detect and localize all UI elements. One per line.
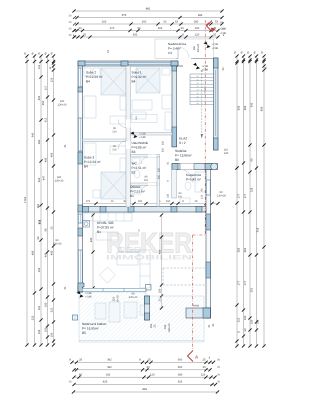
svg-text:P=90: P=90 [177, 65, 184, 68]
svg-text:33: 33 [180, 27, 184, 30]
svg-text:466: 466 [32, 250, 35, 255]
svg-text:220+20: 220+20 [55, 180, 64, 183]
svg-text:+2,88: +2,88 [85, 296, 92, 299]
svg-text:Nadstrešnica: Nadstrešnica [168, 42, 186, 46]
svg-text:Ulaz/hodnik: Ulaz/hodnik [132, 141, 149, 145]
svg-text:Z2: Z2 [222, 67, 225, 71]
svg-text:260: 260 [38, 139, 41, 144]
svg-text:53: 53 [215, 21, 219, 24]
svg-text:130: 130 [224, 152, 229, 155]
svg-text:83: 83 [79, 373, 83, 376]
svg-text:P= 16,95m²: P= 16,95m² [82, 327, 99, 331]
svg-text:B3: B3 [132, 150, 136, 154]
svg-text:123: 123 [150, 373, 155, 376]
svg-text:16: 16 [197, 95, 199, 98]
svg-text:220: 220 [195, 27, 200, 30]
svg-text:210: 210 [112, 130, 117, 133]
svg-text:25: 25 [213, 34, 217, 37]
svg-text:25: 25 [79, 358, 83, 361]
svg-text:696: 696 [261, 106, 264, 111]
svg-text:53: 53 [175, 21, 179, 24]
svg-text:228: 228 [251, 187, 254, 192]
svg-text:543: 543 [251, 102, 254, 107]
svg-text:B2: B2 [132, 170, 136, 174]
svg-text:33: 33 [202, 366, 206, 369]
svg-text:P=2,51 m²: P=2,51 m² [132, 166, 147, 170]
svg-text:277: 277 [238, 193, 241, 198]
svg-text:C3: C3 [168, 51, 172, 55]
svg-text:190: 190 [244, 315, 247, 320]
svg-text:P=9,85 m²: P=9,85 m² [132, 145, 147, 149]
svg-text:575: 575 [122, 14, 127, 17]
svg-text:25: 25 [202, 358, 206, 361]
svg-text:333: 333 [32, 315, 35, 320]
svg-text:11: 11 [197, 78, 199, 81]
svg-text:400: 400 [51, 152, 54, 157]
svg-text:277: 277 [238, 280, 241, 285]
svg-text:12: 12 [197, 82, 199, 85]
svg-text:Ostava: Ostava [130, 185, 140, 189]
svg-text:Natkriveni balkon: Natkriveni balkon [82, 322, 107, 326]
svg-text:Soba 2: Soba 2 [86, 71, 96, 75]
svg-text:P=5,42 m²: P=5,42 m² [186, 177, 201, 181]
svg-text:15: 15 [197, 92, 199, 95]
svg-text:KH=BL+DB: KH=BL+DB [97, 221, 113, 225]
svg-text:141: 141 [38, 64, 41, 69]
svg-text:583: 583 [238, 247, 241, 252]
svg-text:918: 918 [257, 227, 260, 232]
svg-text:Z1: Z1 [64, 144, 67, 148]
svg-text:455: 455 [42, 100, 45, 105]
svg-text:522: 522 [51, 307, 54, 312]
svg-text:B5: B5 [82, 331, 86, 335]
svg-text:150: 150 [38, 329, 41, 334]
svg-text:400: 400 [45, 252, 48, 257]
svg-text:+2,98: +2,98 [220, 28, 227, 31]
svg-text:160: 160 [142, 21, 147, 24]
svg-text:+2,88: +2,88 [139, 136, 146, 139]
svg-text:881: 881 [146, 8, 151, 11]
svg-text:Z1: Z1 [208, 324, 211, 328]
svg-text:101: 101 [38, 305, 41, 310]
svg-text:600: 600 [244, 105, 247, 110]
svg-text:WC: WC [132, 162, 138, 166]
svg-text:P=9,32 m²: P=9,32 m² [132, 75, 147, 79]
svg-text:10: 10 [197, 75, 199, 78]
svg-text:342: 342 [106, 373, 111, 376]
svg-text:Z1: Z1 [64, 286, 67, 290]
svg-text:210: 210 [144, 179, 149, 182]
svg-text:150: 150 [45, 327, 48, 332]
svg-text:150: 150 [257, 319, 260, 324]
svg-text:+2,88: +2,88 [220, 32, 227, 35]
svg-text:683: 683 [244, 247, 247, 252]
svg-text:277: 277 [244, 193, 247, 198]
svg-text:150: 150 [51, 332, 54, 337]
svg-text:323: 323 [102, 21, 107, 24]
svg-text:150: 150 [138, 200, 143, 203]
svg-text:522: 522 [238, 317, 241, 322]
svg-text:Soba 1: Soba 1 [132, 71, 142, 75]
svg-text:382: 382 [37, 203, 40, 208]
svg-text:180: 180 [178, 373, 183, 376]
svg-text:220+20: 220+20 [197, 43, 200, 52]
svg-text:542: 542 [133, 34, 138, 37]
svg-text:33: 33 [78, 27, 82, 30]
svg-text:25: 25 [83, 34, 87, 37]
svg-text:160: 160 [193, 45, 196, 50]
svg-text:Kupaonica: Kupaonica [186, 173, 201, 177]
svg-text:Z1: Z1 [212, 323, 215, 327]
svg-text:220+20: 220+20 [58, 104, 67, 107]
svg-text:351: 351 [251, 287, 254, 292]
svg-text:190: 190 [166, 200, 171, 203]
svg-text:392: 392 [107, 358, 112, 361]
svg-text:B4: B4 [132, 79, 136, 83]
svg-text:426: 426 [178, 381, 183, 384]
svg-text:277: 277 [244, 280, 247, 285]
svg-text:130+20: 130+20 [217, 195, 226, 198]
svg-text:B4: B4 [86, 79, 90, 83]
svg-text:P=37,85 m²: P=37,85 m² [97, 225, 114, 229]
svg-text:210: 210 [112, 148, 117, 151]
svg-text:25: 25 [148, 358, 152, 361]
svg-text:102: 102 [167, 193, 170, 198]
svg-text:33: 33 [146, 366, 150, 369]
svg-text:1794: 1794 [24, 197, 27, 203]
svg-text:425: 425 [103, 381, 108, 384]
svg-text:447: 447 [43, 175, 46, 180]
svg-text:210: 210 [201, 194, 204, 199]
svg-text:210: 210 [162, 147, 165, 152]
svg-text:270: 270 [86, 200, 91, 203]
svg-text:400: 400 [45, 157, 48, 162]
svg-text:50: 50 [137, 27, 141, 30]
svg-text:225: 225 [51, 77, 54, 82]
svg-text:253: 253 [38, 267, 41, 272]
svg-text:Z1: Z1 [107, 49, 110, 53]
svg-text:P= 13,86m²: P= 13,86m² [175, 153, 192, 157]
svg-text:150: 150 [251, 319, 254, 324]
svg-text:+2,98: +2,98 [212, 43, 219, 46]
svg-text:14: 14 [197, 89, 199, 92]
svg-text:+2,88: +2,88 [212, 47, 219, 50]
svg-text:B1: B1 [130, 194, 134, 198]
svg-text:ULAZ: ULAZ [179, 137, 187, 141]
svg-text:881: 881 [143, 388, 148, 391]
svg-text:630: 630 [238, 105, 241, 110]
svg-text:912: 912 [45, 117, 48, 122]
svg-text:B1: B1 [97, 230, 101, 234]
svg-text:IMMOBILIEN: IMMOBILIEN [106, 255, 193, 262]
svg-text:262: 262 [158, 27, 163, 30]
svg-text:17: 17 [197, 99, 199, 102]
svg-text:P=12,29 m²: P=12,29 m² [86, 75, 103, 79]
svg-text:18: 18 [197, 102, 199, 105]
svg-text:110: 110 [162, 140, 165, 145]
svg-text:400: 400 [159, 249, 162, 254]
svg-text:220: 220 [195, 34, 200, 37]
svg-text:286: 286 [198, 14, 203, 17]
svg-text:210: 210 [158, 174, 161, 179]
svg-text:B4: B4 [84, 164, 88, 168]
svg-text:123: 123 [201, 373, 206, 376]
svg-text:400: 400 [51, 250, 54, 255]
svg-text:P=2,51 m²: P=2,51 m² [130, 189, 145, 193]
svg-text:360: 360 [178, 358, 183, 361]
svg-text:S / 2: S / 2 [179, 141, 186, 145]
svg-text:13: 13 [197, 85, 199, 88]
svg-text:92: 92 [163, 21, 167, 24]
svg-text:150: 150 [45, 302, 48, 307]
svg-text:455: 455 [38, 95, 41, 100]
svg-text:270: 270 [110, 27, 115, 30]
svg-text:360: 360 [178, 366, 183, 369]
svg-text:Soba 3: Soba 3 [84, 156, 94, 160]
svg-text:945: 945 [32, 132, 35, 137]
svg-text:B0: B0 [175, 158, 179, 162]
svg-text:400: 400 [90, 237, 93, 242]
svg-text:220+20: 220+20 [53, 243, 62, 246]
svg-text:513: 513 [39, 219, 42, 224]
svg-text:317: 317 [45, 85, 48, 90]
svg-text:210: 210 [178, 195, 183, 198]
svg-text:180: 180 [194, 21, 199, 24]
svg-text:P=12,29 m²: P=12,29 m² [84, 160, 101, 164]
svg-text:110: 110 [158, 167, 161, 172]
svg-text:150: 150 [159, 288, 162, 293]
svg-text:Stubište: Stubište [175, 149, 187, 153]
svg-text:320: 320 [38, 177, 41, 182]
svg-text:P=90: P=90 [193, 305, 200, 308]
svg-text:392: 392 [107, 366, 112, 369]
